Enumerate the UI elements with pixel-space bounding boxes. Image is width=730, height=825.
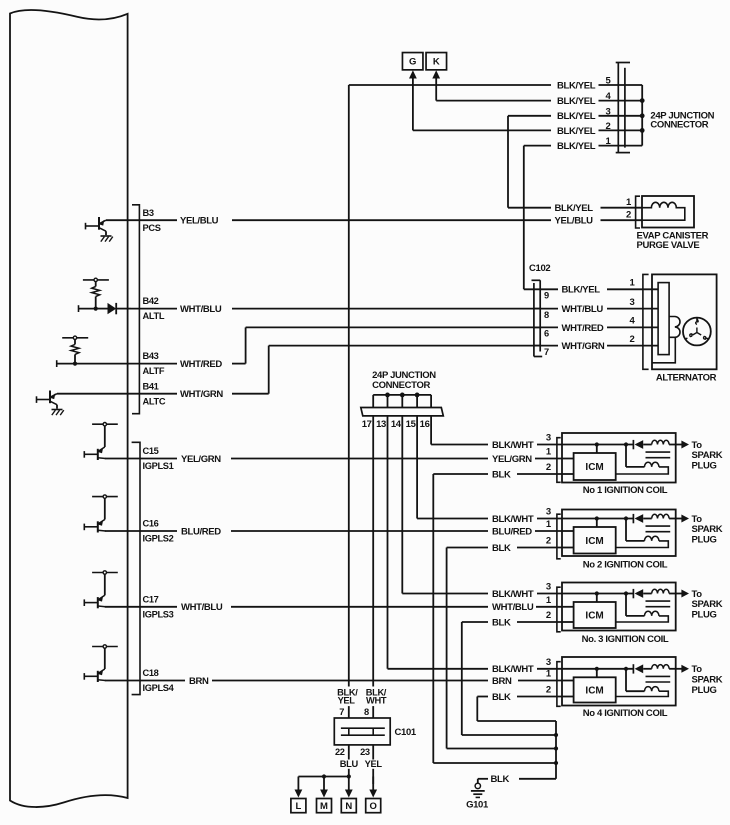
ICM coil 3 bbox=[574, 602, 616, 628]
svg-text:C15: C15 bbox=[143, 446, 159, 456]
wire B43 WHT/RED to C102 pin 6 bbox=[131, 363, 177, 365]
arrow to spark plug 1 bbox=[676, 444, 683, 446]
svg-text:C18: C18 bbox=[143, 668, 159, 678]
svg-text:2: 2 bbox=[630, 334, 635, 345]
wire BLK/YEL pin4 from K bbox=[436, 100, 551, 102]
svg-text:BLU/RED: BLU/RED bbox=[492, 526, 532, 537]
svg-text:WHT: WHT bbox=[366, 696, 387, 706]
wire C18 BRN to No4 coil bbox=[105, 680, 185, 682]
alternator bbox=[652, 274, 717, 369]
wire BLK/YEL riser to C101 pin 7 bbox=[348, 85, 350, 687]
svg-text:BLK/YEL: BLK/YEL bbox=[562, 285, 601, 296]
svg-text:3: 3 bbox=[546, 657, 551, 668]
arrow into O bbox=[372, 777, 374, 791]
svg-text:B43: B43 bbox=[143, 351, 159, 361]
svg-text:M: M bbox=[320, 801, 328, 812]
svg-text:O: O bbox=[370, 801, 377, 812]
junction bar bbox=[361, 408, 444, 416]
svg-text:16: 16 bbox=[420, 419, 430, 430]
svg-text:BLK/YEL: BLK/YEL bbox=[557, 126, 596, 137]
svg-text:B42: B42 bbox=[143, 296, 159, 306]
svg-text:C102: C102 bbox=[529, 263, 550, 274]
diode coil 1 bbox=[632, 440, 634, 449]
svg-text:YEL: YEL bbox=[338, 696, 356, 706]
svg-text:No 1 IGNITION COIL: No 1 IGNITION COIL bbox=[583, 485, 668, 496]
svg-text:No 2 IGNITION COIL: No 2 IGNITION COIL bbox=[583, 559, 668, 570]
svg-text:WHT/RED: WHT/RED bbox=[180, 359, 222, 370]
svg-text:ALTERNATOR: ALTERNATOR bbox=[656, 373, 717, 384]
BLK ground bus bbox=[555, 721, 557, 779]
svg-text:17: 17 bbox=[362, 419, 372, 430]
secondary winding coil 2 bbox=[652, 514, 669, 518]
core coil 3 bbox=[646, 600, 671, 602]
No 4 ignition coil bbox=[562, 657, 676, 706]
svg-text:BRN: BRN bbox=[492, 676, 512, 687]
wire BLK coil 2 pin 2 bbox=[447, 547, 488, 549]
svg-text:BLK: BLK bbox=[492, 469, 511, 480]
svg-text:WHT/GRN: WHT/GRN bbox=[180, 389, 223, 400]
ground bbox=[101, 235, 112, 237]
core coil 4 bbox=[646, 675, 671, 677]
alternator connector bracket bbox=[643, 274, 649, 369]
transistor Q1 (PCS driver) bbox=[99, 220, 106, 223]
svg-text:BLK/YEL: BLK/YEL bbox=[555, 203, 594, 214]
ground bbox=[52, 409, 63, 411]
wire BLK/WHT 24P pin 17 to C101 pin 8 bbox=[372, 416, 374, 687]
svg-text:ICM: ICM bbox=[585, 462, 603, 473]
diode coil 2 bbox=[632, 514, 634, 523]
svg-text:G101: G101 bbox=[466, 800, 489, 811]
secondary winding coil 3 bbox=[652, 589, 669, 593]
svg-text:WHT/BLU: WHT/BLU bbox=[181, 602, 223, 613]
connector box G bbox=[402, 53, 423, 70]
svg-text:BLK: BLK bbox=[492, 692, 511, 703]
core coil 2 bbox=[646, 525, 671, 527]
wire B42 WHT/BLU to C102 pin 8 bbox=[131, 308, 177, 310]
svg-text:No. 3 IGNITION COIL: No. 3 IGNITION COIL bbox=[582, 634, 669, 645]
coil 1 connector bracket bbox=[557, 438, 561, 483]
diode coil 4 bbox=[632, 664, 634, 673]
regulator/brush block bbox=[658, 283, 669, 355]
No 3 ignition coil bbox=[562, 583, 676, 631]
svg-text:PLUG: PLUG bbox=[692, 535, 717, 546]
svg-text:BLK/YEL: BLK/YEL bbox=[557, 96, 596, 107]
svg-text:N: N bbox=[345, 801, 352, 812]
connector box L bbox=[291, 799, 306, 813]
svg-text:9: 9 bbox=[544, 291, 549, 301]
svg-text:PURGE VALVE: PURGE VALVE bbox=[637, 240, 700, 251]
svg-text:B41: B41 bbox=[143, 381, 159, 391]
svg-text:IGPLS2: IGPLS2 bbox=[143, 534, 174, 544]
24P junction connector (top) bbox=[616, 62, 630, 64]
svg-text:WHT/BLU: WHT/BLU bbox=[492, 602, 534, 613]
secondary winding coil 4 bbox=[652, 665, 669, 669]
svg-text:7: 7 bbox=[544, 347, 549, 357]
ICM coil 4 bbox=[574, 677, 616, 702]
svg-text:7: 7 bbox=[339, 707, 344, 717]
riser junction pin1 to C102 pin9 bbox=[523, 146, 525, 290]
collector supply bar bbox=[92, 572, 118, 574]
svg-text:3: 3 bbox=[546, 507, 551, 518]
svg-text:3: 3 bbox=[546, 582, 551, 593]
wire BLK/YEL pin2 from G bbox=[413, 129, 551, 131]
svg-text:IGPLS1: IGPLS1 bbox=[143, 461, 174, 471]
svg-text:BLK/YEL: BLK/YEL bbox=[557, 141, 596, 152]
svg-text:BLK/WHT: BLK/WHT bbox=[492, 664, 534, 675]
svg-text:YEL: YEL bbox=[365, 759, 383, 769]
stator (3-phase symbol) bbox=[683, 318, 711, 346]
jumper bus bbox=[373, 394, 431, 396]
svg-text:BLU: BLU bbox=[340, 759, 359, 769]
svg-text:CONNECTOR: CONNECTOR bbox=[650, 120, 708, 131]
arrow to spark plug 4 bbox=[676, 668, 683, 670]
branch bus to L M N bbox=[298, 776, 348, 778]
arrow into M bbox=[323, 777, 325, 791]
svg-text:BLK/WHT: BLK/WHT bbox=[492, 514, 534, 525]
svg-text:ICM: ICM bbox=[585, 611, 603, 622]
diode D1 bbox=[96, 308, 108, 310]
diode coil 3 bbox=[632, 589, 634, 598]
supply bar bbox=[62, 337, 88, 339]
No 2 ignition coil bbox=[562, 510, 676, 557]
svg-text:PLUG: PLUG bbox=[692, 685, 717, 696]
svg-text:IGPLS4: IGPLS4 bbox=[143, 683, 175, 693]
EVAP canister purge valve (solenoid) bbox=[642, 196, 694, 228]
resistor bbox=[95, 282, 97, 287]
secondary winding coil 1 bbox=[652, 440, 669, 444]
svg-text:14: 14 bbox=[391, 419, 402, 430]
wire YEL from C101 pin 23 bbox=[372, 745, 374, 760]
wire BLK coil 1 pin 2 bbox=[433, 473, 488, 475]
supply bar bbox=[83, 279, 109, 281]
svg-text:CONNECTOR: CONNECTOR bbox=[372, 380, 430, 391]
svg-text:8: 8 bbox=[364, 707, 369, 717]
connector box N bbox=[341, 799, 356, 813]
svg-text:C17: C17 bbox=[143, 594, 159, 604]
primary winding coil 1 bbox=[625, 445, 627, 467]
svg-text:2: 2 bbox=[546, 536, 551, 547]
wire 24P to BLK/WHT coil 2 pin 3 bbox=[416, 416, 418, 519]
collector supply bar bbox=[92, 423, 118, 425]
jumper bus bbox=[641, 85, 643, 146]
svg-text:ALTF: ALTF bbox=[143, 366, 165, 376]
wire BLK coil 3 pin 2 bbox=[462, 621, 488, 623]
svg-text:PLUG: PLUG bbox=[692, 610, 717, 621]
svg-text:3: 3 bbox=[546, 433, 551, 444]
wire C16 BLU/RED to No2 coil bbox=[105, 530, 177, 532]
svg-text:PCS: PCS bbox=[143, 223, 161, 233]
svg-text:G: G bbox=[409, 57, 416, 68]
wire 24P to BLK/WHT coil 1 pin 3 bbox=[430, 416, 432, 445]
rotor field coil bbox=[669, 317, 680, 338]
primary winding coil 4 bbox=[625, 669, 627, 691]
wire C15 YEL/GRN to No1 coil bbox=[105, 458, 177, 460]
ECM body (torn-edge box) bbox=[10, 10, 128, 807]
ECM connector bracket B-group bbox=[132, 205, 139, 414]
coil 4 connector bracket bbox=[557, 662, 561, 707]
svg-text:WHT/RED: WHT/RED bbox=[562, 323, 604, 334]
svg-text:BLK: BLK bbox=[492, 617, 511, 628]
svg-text:BLU/RED: BLU/RED bbox=[181, 526, 221, 537]
svg-text:WHT/BLU: WHT/BLU bbox=[562, 304, 604, 315]
svg-text:BLK/WHT: BLK/WHT bbox=[492, 589, 534, 600]
svg-text:23: 23 bbox=[360, 747, 370, 757]
connector box O bbox=[366, 799, 381, 813]
wire BLK/YEL EVAP pin 1 bbox=[508, 207, 551, 209]
svg-text:BLK: BLK bbox=[492, 543, 511, 554]
arrow into L bbox=[297, 777, 299, 791]
collector supply bar bbox=[92, 646, 118, 648]
No 1 ignition coil bbox=[562, 433, 676, 483]
svg-text:13: 13 bbox=[376, 419, 386, 430]
svg-text:15: 15 bbox=[406, 419, 417, 430]
svg-text:ALTC: ALTC bbox=[143, 396, 166, 406]
core coil 1 bbox=[646, 451, 671, 453]
wire 24P to BLK/WHT coil 4 pin 3 bbox=[387, 416, 389, 669]
svg-text:BRN: BRN bbox=[189, 676, 209, 687]
connector C101 bbox=[334, 718, 390, 745]
svg-text:C16: C16 bbox=[143, 519, 159, 529]
connector box M bbox=[317, 799, 332, 813]
svg-text:2: 2 bbox=[546, 462, 551, 473]
svg-text:WHT/GRN: WHT/GRN bbox=[562, 341, 605, 352]
primary winding coil 3 bbox=[625, 594, 627, 616]
coil 2 connector bracket bbox=[557, 514, 561, 559]
svg-text:BLK/WHT: BLK/WHT bbox=[492, 440, 534, 451]
arrow into K bbox=[435, 77, 437, 100]
svg-text:ICM: ICM bbox=[585, 536, 603, 547]
ICM coil 1 bbox=[574, 453, 616, 480]
wire BLK coil 4 pin 2 bbox=[477, 696, 488, 698]
svg-text:C101: C101 bbox=[395, 727, 417, 738]
wire B3 YEL/BLU to EVAP pin 2 bbox=[106, 219, 177, 221]
svg-text:BLK: BLK bbox=[491, 774, 510, 785]
svg-text:8: 8 bbox=[544, 310, 549, 320]
svg-text:BLK/YEL: BLK/YEL bbox=[557, 80, 596, 91]
svg-text:3: 3 bbox=[630, 297, 635, 308]
svg-text:YEL/GRN: YEL/GRN bbox=[181, 454, 221, 465]
svg-text:ICM: ICM bbox=[585, 686, 603, 697]
primary winding coil 2 bbox=[625, 519, 627, 541]
wire C17 WHT/BLU to No3 coil bbox=[105, 606, 177, 608]
wire 24P to BLK/WHT coil 3 pin 3 bbox=[401, 416, 403, 594]
svg-text:WHT/BLU: WHT/BLU bbox=[180, 304, 222, 315]
ICM coil 2 bbox=[574, 527, 616, 554]
svg-text:ALTL: ALTL bbox=[143, 311, 165, 321]
svg-text:IGPLS3: IGPLS3 bbox=[143, 609, 174, 619]
arrow into G bbox=[412, 77, 414, 130]
svg-text:L: L bbox=[295, 801, 301, 812]
collector supply bar bbox=[92, 496, 118, 498]
wire BLK/YEL pin1 to C102 riser bbox=[524, 145, 551, 147]
svg-text:YEL/BLU: YEL/BLU bbox=[555, 216, 594, 227]
svg-text:B3: B3 bbox=[143, 208, 154, 218]
svg-text:YEL/GRN: YEL/GRN bbox=[492, 454, 532, 465]
arrow to spark plug 3 bbox=[676, 593, 683, 595]
wire BLK/YEL pin3 to EVAP riser bbox=[508, 115, 551, 117]
wire B41 WHT/GRN to C102 pin 7 bbox=[57, 393, 177, 395]
svg-text:YEL/BLU: YEL/BLU bbox=[180, 216, 219, 227]
arrow to spark plug 2 bbox=[676, 518, 683, 520]
ECM connector bracket C-group bbox=[132, 442, 140, 694]
transistor Q2 (ALTC driver) bbox=[50, 394, 57, 397]
arrow into N bbox=[348, 777, 350, 791]
coil 3 connector bracket bbox=[557, 587, 561, 632]
svg-text:22: 22 bbox=[335, 747, 345, 757]
svg-text:No 4 IGNITION COIL: No 4 IGNITION COIL bbox=[583, 708, 668, 719]
wire BLU from C101 pin 22 bbox=[348, 745, 350, 760]
svg-text:K: K bbox=[433, 57, 440, 68]
svg-text:2: 2 bbox=[626, 209, 631, 220]
svg-text:2: 2 bbox=[546, 685, 551, 696]
EVAP connector bracket bbox=[636, 196, 640, 228]
svg-text:PLUG: PLUG bbox=[692, 461, 717, 472]
resistor bbox=[74, 340, 76, 345]
connector box K bbox=[426, 53, 447, 70]
svg-text:2: 2 bbox=[546, 610, 551, 621]
riser junction pin3 to EVAP pin1 bbox=[507, 116, 509, 208]
wire BLK/YEL pin5 from C101 riser bbox=[349, 84, 551, 86]
svg-text:BLK/YEL: BLK/YEL bbox=[557, 111, 596, 122]
G101 ground bbox=[477, 779, 479, 784]
svg-text:6: 6 bbox=[544, 329, 549, 339]
